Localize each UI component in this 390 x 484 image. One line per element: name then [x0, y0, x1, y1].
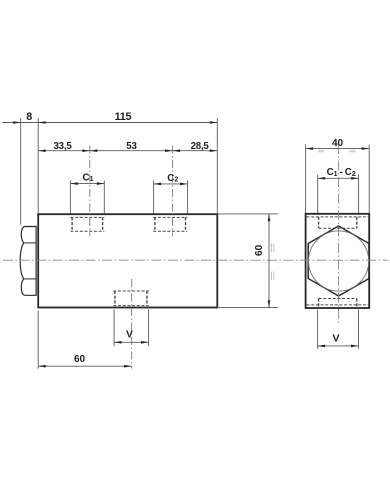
- svg-text:60: 60: [254, 244, 265, 256]
- port C2 hidden lines: [153, 217, 187, 231]
- port V hidden lines: [113, 291, 149, 306]
- dimension 8 extension line (nut left face): [20, 118, 22, 225]
- horizontal main centerline: [3, 259, 388, 261]
- inscribed circle: [309, 231, 369, 291]
- arrow at body right face: [210, 121, 218, 124]
- smudge marks near 40: [318, 150, 356, 152]
- C2 port centerline: [172, 146, 174, 237]
- svg-text:C1 - C2: C1 - C2: [327, 167, 356, 178]
- 40 dimension: [306, 145, 370, 214]
- dimension line 8 / 115: [3, 122, 218, 124]
- C1 dimension: [70, 181, 104, 214]
- smudge marks near 60: [272, 244, 274, 281]
- 60 dimension (bottom): [37, 311, 39, 369]
- end view vertical centerline: [338, 144, 340, 324]
- V dimension (end view): [318, 310, 359, 349]
- arrows row2: [38, 149, 46, 152]
- dimension line 33,5 / 53 / 28,5: [38, 150, 217, 152]
- arrow at body left face: [38, 121, 46, 124]
- svg-text:115: 115: [115, 111, 132, 123]
- svg-text:33,5: 33,5: [53, 141, 72, 152]
- hex nut (side profile): [20, 227, 36, 296]
- svg-text:V: V: [126, 330, 133, 341]
- V port centerline: [131, 279, 133, 369]
- 60 vertical dimension line: [268, 214, 270, 308]
- end view bottom port hidden lines: [307, 299, 369, 308]
- hexagon (nut across flats): [308, 226, 369, 296]
- svg-text:V: V: [332, 332, 339, 344]
- body outline (side view): [38, 214, 217, 307]
- end view body outline: [306, 214, 370, 308]
- extension line body right face: [216, 118, 218, 214]
- extension line body left face: [37, 118, 39, 214]
- arrow at nut face: [13, 121, 21, 124]
- C2 dimension: [154, 181, 188, 214]
- svg-text:28,5: 28,5: [191, 141, 210, 152]
- svg-text:53: 53: [126, 141, 137, 152]
- svg-text:60: 60: [74, 354, 86, 365]
- port C1 hidden lines: [70, 217, 104, 231]
- svg-text:40: 40: [332, 138, 344, 149]
- 60 vertical dimension projection lines: [217, 213, 278, 215]
- C1-C2 dimension: [318, 175, 359, 214]
- svg-text:8: 8: [26, 111, 32, 123]
- V dimension (side view): [114, 310, 149, 347]
- end view top port hidden lines: [307, 217, 369, 228]
- C1 port centerline: [89, 146, 91, 237]
